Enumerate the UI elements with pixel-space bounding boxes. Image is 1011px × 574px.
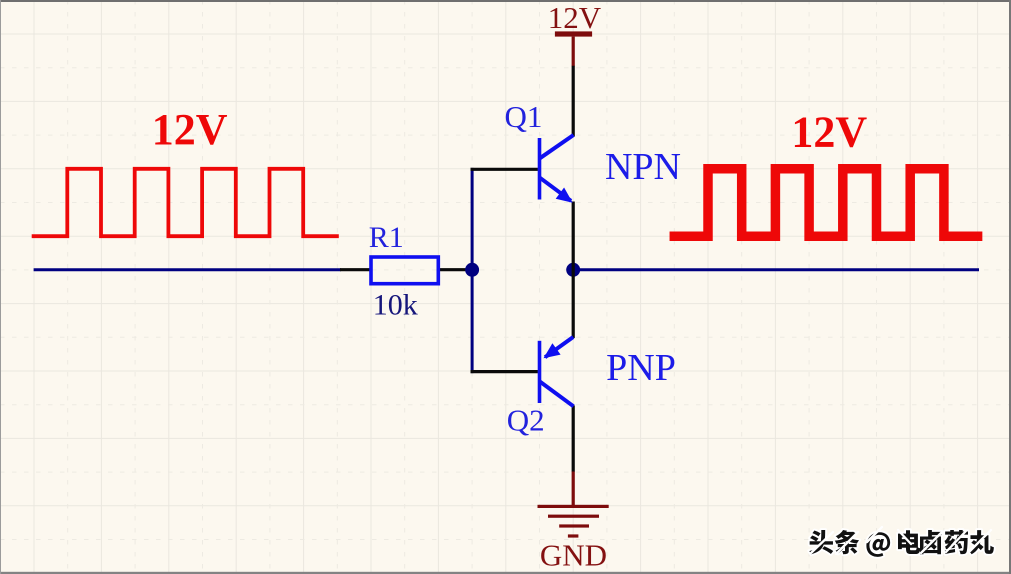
wire input riser (node A vertical) [471, 168, 474, 373]
junction node A [465, 263, 479, 277]
watermark 头条@电卤药丸 black text [809, 530, 994, 557]
svg-text:GND: GND [540, 537, 607, 572]
svg-text:NPN: NPN [605, 146, 681, 188]
power port 12V [555, 31, 592, 66]
wire output line [573, 268, 979, 271]
input waveform (red square wave) [34, 169, 337, 236]
watermark 头条@电卤药丸 white halo [809, 530, 994, 557]
wire input line [34, 268, 341, 271]
ground GND [538, 472, 609, 538]
transistor Q1 (NPN) [538, 135, 574, 203]
wire collector Q1 [572, 66, 575, 137]
watermark slash cuts [811, 527, 991, 554]
svg-text:12V: 12V [152, 105, 228, 154]
svg-text:Q2: Q2 [507, 403, 545, 438]
wire emitter Q1 [572, 202, 575, 271]
svg-text:12V: 12V [791, 108, 867, 157]
svg-text:R1: R1 [369, 221, 404, 254]
svg-text:12V: 12V [548, 0, 602, 35]
output waveform (thick red square wave) [674, 169, 977, 236]
transistor Q2 (PNP) [538, 337, 574, 406]
pin R1.1 [340, 268, 371, 271]
wire collector Q2 [572, 406, 575, 472]
wire emitter Q2 [572, 270, 575, 338]
svg-text:PNP: PNP [606, 347, 676, 389]
resistor R1 [371, 257, 438, 284]
svg-text:10k: 10k [373, 289, 418, 322]
wire base Q2 [471, 370, 538, 373]
svg-text:Q1: Q1 [505, 99, 543, 134]
junction node OUT [566, 263, 580, 277]
pin R1.2 [438, 268, 467, 271]
wire base Q1 [471, 168, 538, 171]
